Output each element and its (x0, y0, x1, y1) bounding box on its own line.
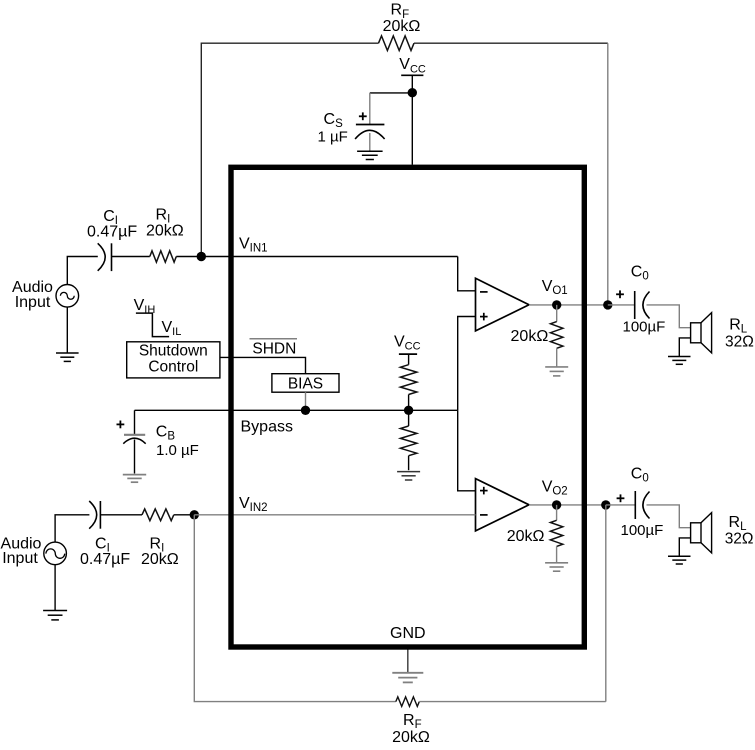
svg-text:GND: GND (390, 625, 426, 642)
wire CB to ground (134, 440, 136, 474)
svg-text:20kΩ: 20kΩ (383, 18, 421, 35)
wire BIAS to bypass node (305, 392, 307, 410)
resistor divider top (400, 365, 416, 395)
wire opamp1 non-inverting input (458, 317, 476, 411)
op-amp U1A (476, 278, 530, 331)
capacitor CI 1 flat plate (111, 243, 113, 271)
svg-text:32Ω: 32Ω (725, 531, 754, 548)
wire pulldown1 to ground (556, 348, 558, 367)
wire CB drop (134, 410, 136, 435)
block BIAS (272, 374, 339, 393)
ground audio input 2 (43, 610, 67, 612)
ground GND pin (392, 672, 423, 674)
capacitor C0 2 flat plate (634, 491, 636, 519)
IC amplifier box U1 (231, 167, 584, 647)
ground pulldown 1 (545, 366, 568, 368)
wire pulldown2 to ground (556, 546, 558, 562)
junction output node 2 (601, 500, 610, 509)
svg-text:20kΩ: 20kΩ (141, 551, 179, 568)
VCC supply bar (401, 74, 423, 76)
svg-text:Input: Input (2, 550, 38, 567)
wire source1 bottom (66, 307, 68, 353)
capacitor C0 2 plus (617, 497, 625, 499)
wire speaker1 to ground (679, 338, 690, 357)
capacitor CB top plate (124, 434, 145, 436)
wire source2 bottom (54, 565, 56, 611)
wire VO2 pulldown stub (556, 505, 558, 520)
wire VO1 pulldown stub (556, 305, 558, 322)
wire CI1 to RI1 (112, 256, 150, 258)
svg-text:20kΩ: 20kΩ (507, 528, 545, 545)
wire speaker2 to ground (679, 538, 690, 556)
svg-text:100µF: 100µF (623, 319, 666, 336)
svg-text:1 µF: 1 µF (318, 129, 348, 146)
wire VCC bar to resistor (408, 354, 410, 365)
svg-text:100µF: 100µF (621, 522, 664, 539)
ground CB (123, 474, 146, 476)
wire CS to ground (369, 133, 371, 151)
junction divider bypass (404, 406, 413, 415)
wire bottom feedback left vertical (194, 515, 395, 702)
capacitor CI 2 curved plate (89, 501, 97, 529)
junction BIAS bypass (301, 406, 310, 415)
logic level step symbol (136, 313, 169, 337)
wire VCC to box (411, 75, 413, 164)
wire node2 to C0 2 (606, 504, 636, 506)
junction output node 1 (603, 300, 612, 309)
speaker RL 2 (691, 523, 701, 543)
wire bottom feedback right segment (419, 701, 606, 703)
VCC divider bar (399, 353, 417, 355)
wire top feedback left vertical (201, 43, 378, 256)
resistor 20k pulldown 2 (550, 520, 562, 546)
ground divider (397, 471, 420, 473)
capacitor CS top plate (356, 124, 385, 126)
ground audio input 1 (56, 352, 79, 354)
ground pulldown 2 (545, 562, 568, 564)
resistor RF bottom (396, 697, 420, 707)
capacitor CB plus (117, 423, 125, 425)
capacitor C0 1 flat plate (634, 291, 636, 319)
wire top feedback right segment (414, 42, 608, 44)
source AC audio input 2 (44, 542, 67, 565)
wire opamp1 inverting input (458, 257, 476, 291)
ground speaker 1 (668, 356, 691, 358)
wire CS top drop (369, 93, 371, 125)
svg-text:Control: Control (148, 359, 198, 376)
wire RI2 to node (174, 514, 195, 516)
ground CS (357, 150, 383, 152)
capacitor C0 1 plus (616, 293, 624, 295)
wire divider to node (408, 395, 410, 411)
ground speaker 2 (668, 555, 691, 557)
svg-text:0.47µF: 0.47µF (87, 224, 137, 241)
wire VIN1 into box (201, 256, 457, 258)
resistor 20k pulldown 1 (551, 322, 563, 349)
wire shutdown to SHDN pin (220, 357, 306, 373)
junction VIN2 node (190, 510, 199, 519)
wire GND pin (407, 650, 409, 673)
resistor RF top (379, 36, 415, 51)
wire divider bottom to ground (408, 456, 410, 471)
wire top feedback right vertical (607, 43, 609, 305)
wire RI1 to node (176, 256, 201, 258)
svg-text:Shutdown: Shutdown (139, 343, 208, 360)
svg-text:32Ω: 32Ω (725, 334, 754, 351)
junction VO2 (552, 500, 561, 509)
svg-text:Bypass: Bypass (241, 418, 293, 435)
svg-text:0.47µF: 0.47µF (80, 551, 130, 568)
wire bottom feedback right vertical (605, 505, 607, 702)
wire opamp2 non-inverting input (458, 410, 476, 491)
wire opamp2 output (529, 504, 606, 506)
wire opamp1 output (529, 304, 608, 306)
svg-text:20kΩ: 20kΩ (511, 328, 549, 345)
junction VIN1 node (197, 252, 206, 261)
resistor divider bottom (400, 426, 416, 456)
capacitor CS plus (359, 115, 367, 117)
capacitor CS curved plate (355, 130, 385, 139)
wire C0 2 to speaker (647, 505, 691, 528)
source AC audio input 1 (56, 285, 79, 308)
op-amp U1B (476, 479, 530, 531)
svg-text:20kΩ: 20kΩ (146, 223, 184, 240)
capacitor CB curved plate (123, 438, 145, 444)
wire C0 1 to speaker (647, 305, 691, 328)
svg-text:1.0 µF: 1.0 µF (156, 442, 199, 459)
junction VO1 (552, 300, 561, 309)
wire source1 top (67, 257, 98, 285)
label SHDN with overline (250, 338, 298, 340)
svg-text:SHDN: SHDN (252, 341, 296, 358)
opamp2 plus sign (480, 490, 488, 492)
resistor RI 2 (142, 509, 174, 521)
capacitor C0 1 curved plate (643, 292, 650, 319)
wire VIN2 into box (194, 514, 475, 516)
wire VCC node to CS (370, 92, 413, 94)
wire CI2 to RI2 (100, 514, 142, 516)
wire bypass rail (135, 409, 458, 411)
wire source2 top (55, 515, 89, 542)
capacitor CI 2 flat plate (99, 501, 101, 529)
speaker RL 1 (691, 323, 701, 343)
junction VCC node (408, 88, 417, 97)
wire node to divider bottom (408, 410, 410, 426)
capacitor CI 1 curved plate (98, 243, 106, 270)
opamp1 plus sign (480, 316, 488, 318)
svg-text:Input: Input (15, 294, 51, 311)
svg-text:20kΩ: 20kΩ (392, 729, 430, 746)
capacitor C0 2 curved plate (643, 492, 650, 519)
wire node1 to C0 (608, 304, 635, 306)
opamp2 minus sign (480, 514, 488, 516)
svg-text:BIAS: BIAS (288, 376, 323, 393)
opamp1 minus sign (480, 291, 488, 293)
resistor RI 1 (150, 251, 177, 262)
shutdown control block (127, 342, 220, 378)
